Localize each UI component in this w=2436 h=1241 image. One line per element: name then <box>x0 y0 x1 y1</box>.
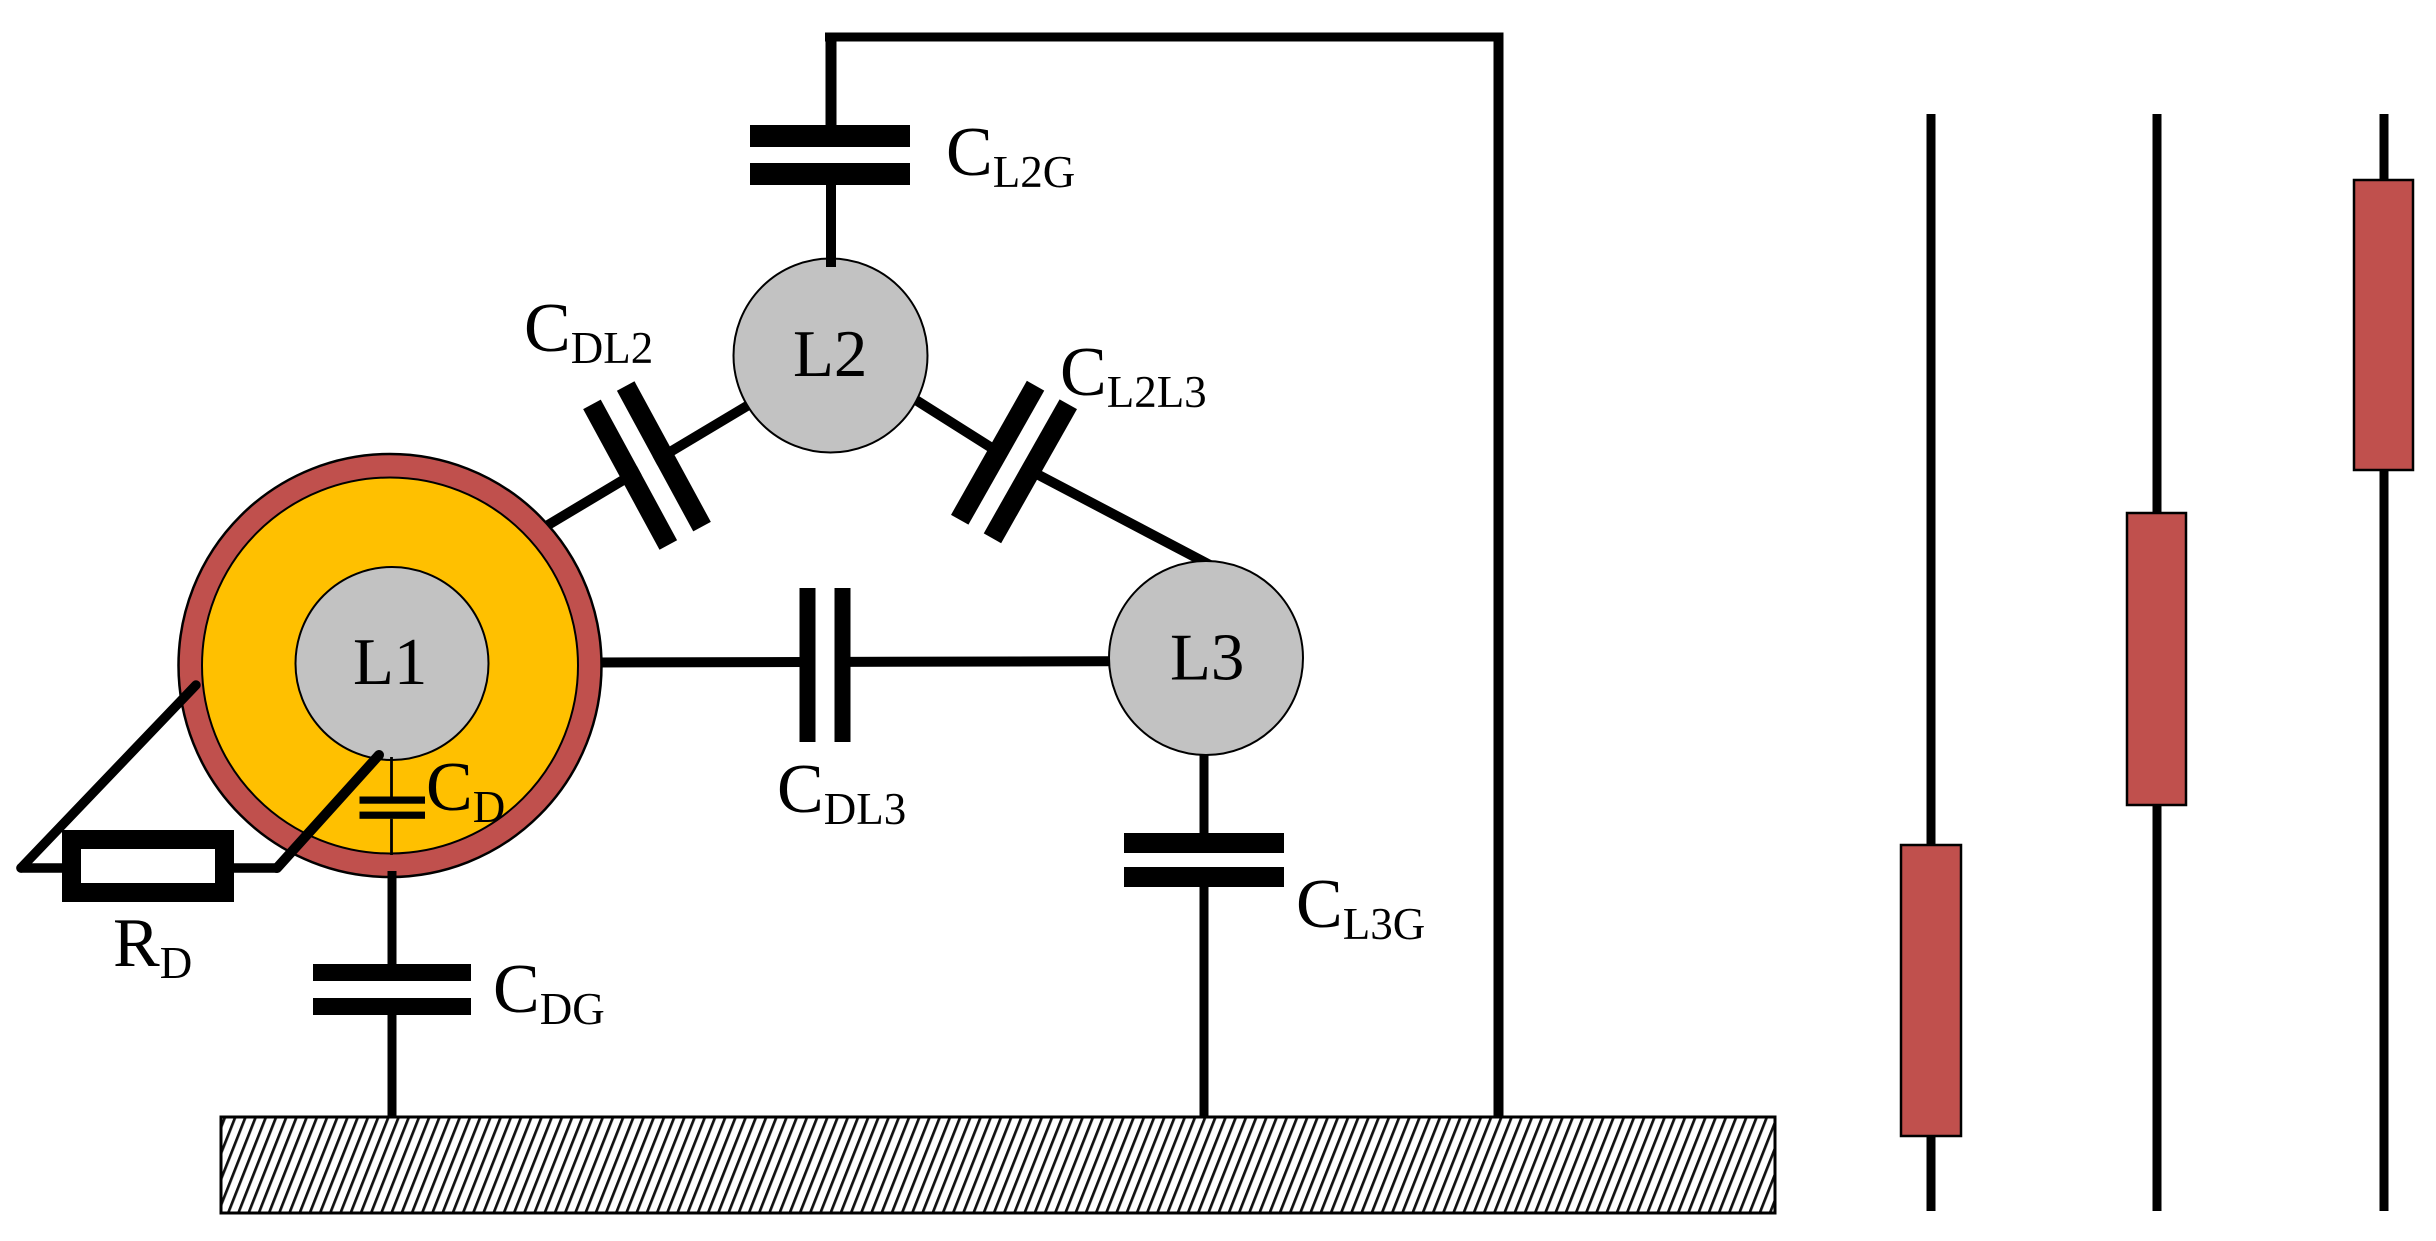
svg-text:L2: L2 <box>793 317 867 391</box>
svg-text:L3: L3 <box>1170 621 1244 695</box>
svg-text:L1: L1 <box>353 625 427 699</box>
